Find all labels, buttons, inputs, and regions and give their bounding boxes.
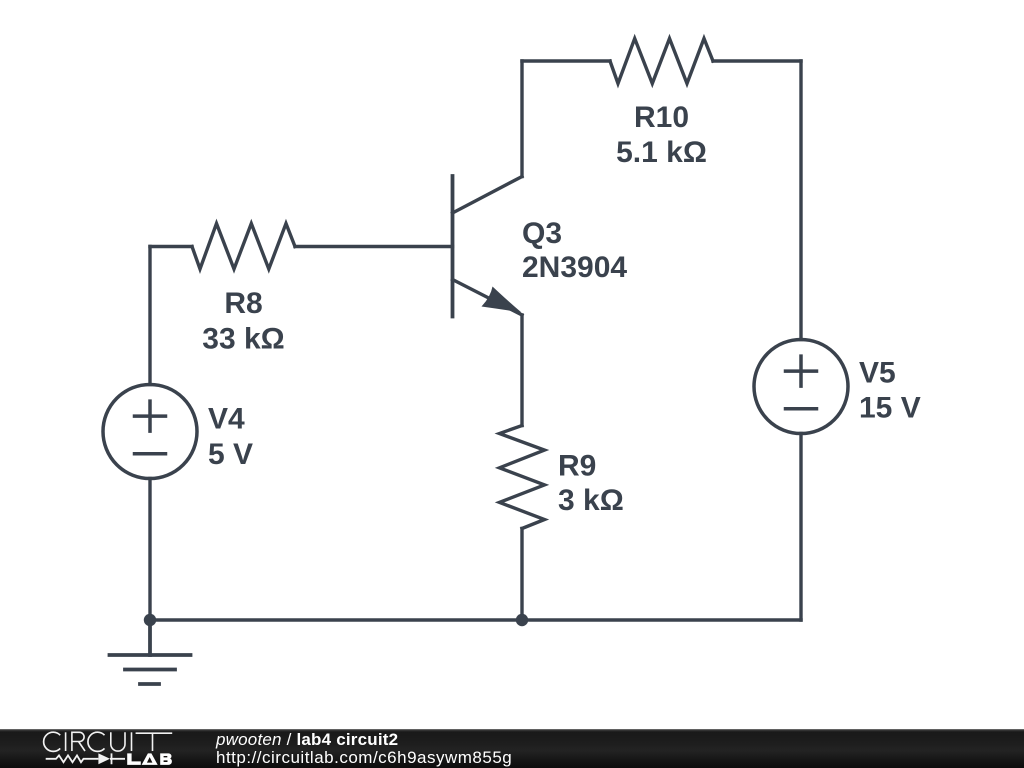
svg-text:R10: R10 xyxy=(634,101,689,134)
logo LAB letter L xyxy=(127,753,141,765)
wire top: R10 right lead to top-right corner xyxy=(713,59,801,62)
wire: R9 bottom lead xyxy=(520,529,523,621)
svg-text:5 V: 5 V xyxy=(208,438,253,471)
footer url line xyxy=(216,748,512,768)
letter I xyxy=(131,732,133,751)
svg-text:33 kΩ: 33 kΩ xyxy=(202,323,284,356)
resistor R8 xyxy=(192,224,295,270)
resistor R9 xyxy=(500,426,545,529)
ground xyxy=(110,620,191,684)
svg-text:15 V: 15 V xyxy=(859,392,921,425)
transistor Q3 xyxy=(453,176,523,317)
wire: R8 left lead xyxy=(150,245,192,248)
footer title line xyxy=(216,730,398,750)
footer bar xyxy=(0,729,1024,768)
voltage source V4 xyxy=(103,385,197,479)
wire: emitter riser to R9 xyxy=(520,315,523,426)
logo LAB letter B xyxy=(160,753,172,765)
svg-text:5.1 kΩ: 5.1 kΩ xyxy=(616,136,707,169)
junction node at V4/ground xyxy=(144,614,156,626)
voltage source V5 xyxy=(754,340,848,434)
wire top: R10 left lead from collector riser xyxy=(522,59,610,62)
wire right rail: V5 to bottom-right corner xyxy=(799,434,802,621)
svg-text:R9: R9 xyxy=(558,450,596,483)
logo LAB letter A xyxy=(142,753,158,765)
letter T xyxy=(136,733,173,751)
logo wire with resistor xyxy=(46,755,99,762)
svg-text:V5: V5 xyxy=(859,357,896,390)
svg-text:2N3904: 2N3904 xyxy=(522,251,627,284)
logo diode xyxy=(98,753,110,764)
wire: collector riser xyxy=(520,61,523,177)
wire: R8 right lead (base wire) xyxy=(295,245,453,248)
svg-text:V4: V4 xyxy=(208,403,245,436)
letter C xyxy=(44,732,61,751)
junction node at R9 bottom xyxy=(516,614,528,626)
svg-text:R8: R8 xyxy=(224,287,262,320)
svg-text:3 kΩ: 3 kΩ xyxy=(558,484,624,517)
svg-text:Q3: Q3 xyxy=(522,217,562,250)
letter I xyxy=(65,732,67,751)
resistor R10 xyxy=(610,39,713,84)
CircuitLab logo xyxy=(0,726,200,768)
letter U xyxy=(111,732,125,751)
letter R xyxy=(72,732,85,751)
wire right rail: top corner down to V5 xyxy=(799,61,802,340)
wire left rail: V4 to ground node xyxy=(148,479,151,621)
letter C xyxy=(88,732,105,751)
wire left rail: corner down to V4 xyxy=(148,247,151,385)
wire bottom rail xyxy=(150,618,801,621)
